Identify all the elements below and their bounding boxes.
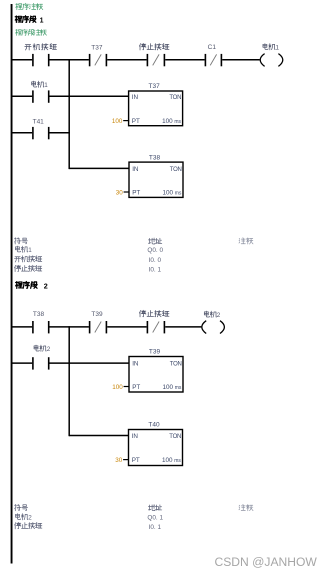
svg-text:100 ms: 100 ms (162, 457, 181, 464)
wire rail to contact 开机按钮 (12, 59, 32, 61)
contact T39 (NC) (90, 321, 107, 333)
table2 header 地址 (148, 505, 161, 511)
PT value 100 (112, 118, 123, 125)
table2 header 符号 (15, 504, 28, 510)
wire rail to contact T41 (12, 132, 32, 134)
svg-text:PT: PT (132, 118, 140, 125)
time base 100 ms (162, 190, 181, 197)
network title 程序段 1 (15, 16, 43, 24)
timer T40 box (129, 430, 183, 466)
pin PT (132, 384, 140, 391)
svg-text:Q0. 0: Q0. 0 (147, 247, 163, 254)
PT input tick (124, 386, 130, 388)
svg-text:CSDN @JANHOW: CSDN @JANHOW (215, 555, 318, 569)
svg-text:100: 100 (112, 384, 123, 391)
svg-text:2: 2 (47, 346, 51, 353)
svg-text:IN: IN (132, 94, 139, 101)
network 1 comment 程序段注释 (16, 29, 47, 35)
pin PT (132, 457, 140, 464)
svg-text:TON: TON (170, 361, 182, 367)
svg-text:IN: IN (132, 433, 139, 440)
TON type (169, 434, 181, 440)
contact T37 (NC) (90, 54, 107, 66)
wire T41 to junction (50, 132, 70, 134)
label T38 contact (33, 311, 45, 318)
svg-text:T37: T37 (148, 83, 160, 90)
svg-text:T40: T40 (148, 422, 160, 429)
wire rail to contact T38 (12, 326, 32, 328)
wire 电机2 to T39 IN (50, 362, 130, 364)
svg-text:T38: T38 (33, 311, 45, 318)
wire to contact 停止按钮 (107, 59, 146, 61)
table1 header 符号 (15, 238, 28, 244)
coil 电机1 (260, 54, 283, 67)
table1 row 停止按钮 (14, 265, 41, 271)
table2 row 电机2 (16, 514, 33, 522)
contact T38 (NO) (33, 321, 49, 333)
svg-text:2: 2 (28, 515, 32, 522)
label 电机2 coil (204, 311, 220, 319)
table2 row 停止按钮 (15, 522, 42, 528)
timer T38 label (149, 154, 161, 161)
wire junction to T38 IN (69, 167, 129, 169)
svg-text:TON: TON (169, 95, 181, 101)
time base 100 ms (162, 118, 181, 125)
timer T37 box (129, 91, 183, 126)
watermark CSDN @JANHOW (215, 555, 318, 569)
contact T41 (NO) (33, 127, 49, 139)
junction vertical N1 (68, 59, 70, 169)
pin IN (132, 433, 139, 440)
label T37 (91, 45, 103, 52)
svg-text:PT: PT (132, 457, 140, 464)
TON type (170, 167, 182, 173)
svg-text:30: 30 (116, 190, 124, 197)
table2 addr I0.1 (149, 524, 162, 531)
pin PT (132, 118, 140, 125)
svg-text:30: 30 (115, 457, 123, 464)
svg-text:1: 1 (28, 247, 32, 254)
wire to contact C1 (165, 59, 204, 61)
PT value 100 (112, 384, 123, 391)
table1 header 注释 (239, 238, 253, 244)
table2 header 注释 (239, 504, 253, 510)
network title 程序段 2 (16, 281, 48, 290)
label 开机按钮 (25, 43, 57, 50)
contact 停止按钮 N2 (NC) (147, 321, 164, 333)
wire to coil 电机2 (165, 326, 201, 328)
POU comment 程序注释 (16, 3, 43, 9)
svg-text:1: 1 (276, 45, 280, 52)
label 电机1 (263, 44, 280, 52)
label 停止按钮 (139, 43, 169, 50)
svg-text:T39: T39 (149, 349, 161, 356)
svg-text:TON: TON (169, 434, 181, 440)
svg-text:100 ms: 100 ms (162, 190, 181, 197)
svg-text:C1: C1 (208, 44, 217, 51)
table2 addr Q0.1 (147, 514, 163, 521)
wire rail to contact 电机2 (12, 362, 32, 364)
table1 header 地址 (148, 238, 161, 244)
table1 addr Q0.0 (147, 247, 163, 254)
timer T40 label (148, 422, 160, 429)
pin IN (132, 166, 139, 173)
table1 row 电机1 (15, 246, 32, 254)
svg-text:2: 2 (217, 312, 221, 319)
svg-text:PT: PT (132, 190, 140, 197)
svg-text:2: 2 (44, 281, 48, 290)
svg-text:IN: IN (132, 166, 139, 173)
svg-text:IN: IN (132, 360, 139, 367)
label T41 (33, 118, 45, 125)
svg-text:T38: T38 (149, 154, 161, 161)
wire junction to T40 IN (69, 435, 128, 437)
wire to contact T37 (50, 59, 89, 61)
svg-text:I0. 0: I0. 0 (149, 257, 162, 264)
svg-text:100: 100 (112, 118, 123, 125)
left power rail (11, 4, 13, 564)
svg-text:TON: TON (170, 167, 182, 173)
PT input tick (123, 459, 129, 461)
timer T39 label (149, 349, 161, 356)
time base 100 ms (162, 384, 181, 391)
svg-text:T37: T37 (91, 45, 103, 52)
label 停止按钮 N2 (139, 310, 169, 317)
contact C1 (NC) (205, 54, 221, 66)
PT input tick (124, 191, 130, 193)
svg-text:1: 1 (44, 82, 48, 89)
PT input tick (123, 120, 129, 122)
wire rail to contact 电机1 (12, 95, 32, 97)
svg-text:Q0. 1: Q0. 1 (147, 514, 163, 521)
svg-text:100 ms: 100 ms (162, 118, 181, 125)
label T39 contact (91, 311, 103, 318)
table1 addr I0.1 (149, 266, 162, 273)
table1 row 开机按钮 (14, 256, 41, 262)
timer T37 label (148, 83, 160, 90)
label 电机2 branch (34, 345, 51, 353)
contact 电机1 (NO) (33, 90, 49, 102)
timer T39 box (129, 357, 183, 393)
wire 电机1 to T37 IN (50, 95, 129, 97)
svg-text:I0. 1: I0. 1 (149, 266, 162, 273)
timer T38 box (129, 162, 183, 197)
table1 addr I0.0 (149, 257, 162, 264)
contact 开机按钮 (NO) (33, 54, 49, 66)
svg-text:PT: PT (132, 384, 140, 391)
wire to coil 电机1 (222, 59, 260, 61)
label 电机1 branch (32, 81, 49, 89)
TON type (169, 95, 181, 101)
pin IN (132, 94, 139, 101)
pin IN (132, 360, 139, 367)
PT value 30 (116, 190, 124, 197)
wire to contact T39 (50, 326, 89, 328)
contact 电机2 (NO) (33, 357, 49, 369)
svg-text:100 ms: 100 ms (162, 384, 181, 391)
pin PT (132, 190, 140, 197)
svg-text:T39: T39 (91, 311, 103, 318)
svg-text:1: 1 (40, 17, 44, 24)
junction vertical N2 (68, 326, 70, 436)
contact 停止按钮 (NC) (147, 54, 164, 66)
coil 电机2 (202, 321, 225, 334)
label C1 (208, 44, 217, 51)
time base 100 ms (162, 457, 181, 464)
svg-text:I0. 1: I0. 1 (149, 524, 162, 531)
TON type (170, 361, 182, 367)
svg-text:T41: T41 (33, 118, 45, 125)
PT value 30 (115, 457, 123, 464)
wire to contact 停止按钮 N2 (107, 326, 146, 328)
